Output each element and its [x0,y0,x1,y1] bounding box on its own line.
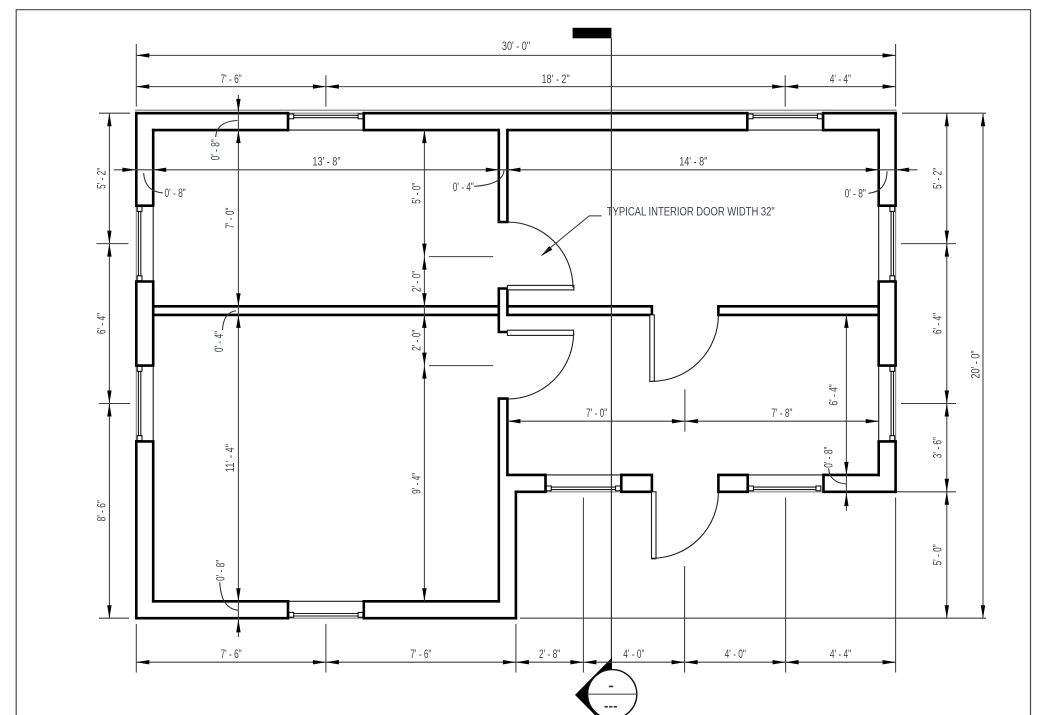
svg-text:20' - 0": 20' - 0" [971,350,983,378]
wall B and C right face segments [506,129,509,476]
svg-text:4' - 4": 4' - 4" [830,649,851,661]
svg-text:0' - 8": 0' - 8" [165,188,186,200]
dimension line 7'-6" 18'-2" 4'-4" [136,86,895,88]
svg-text:6' - 4": 6' - 4" [933,313,945,334]
leader arc right wall 0'-8" [869,171,888,193]
arrows top row2 [136,84,895,88]
leader arc left wall 0'-8" [144,173,163,193]
arrows right 20'-0" [981,113,985,618]
dimension line right 20'-0" [982,113,984,618]
dimension line left chain 5'-2" 6'-4" 8'-6" [108,113,110,618]
arrows interior stack x=238 [236,99,240,143]
dimension line 13'-8" 14'-8" [114,169,918,171]
svg-text:7' - 6": 7' - 6" [221,649,242,661]
door C jamb caps [498,332,509,399]
dimension line interior stack x=238 [237,95,239,637]
roof overhang thin line above top wall [135,109,897,111]
svg-text:0' - 4": 0' - 4" [214,331,226,352]
svg-text:2' - 8": 2' - 8" [539,649,560,661]
svg-text:7' - 0": 7' - 0" [586,408,607,420]
arrows 7'-0" 7'-8" row [507,419,878,423]
section head chord line [588,693,637,695]
door B swing arc [507,222,573,288]
dimension line 7'-0" 7'-8" row [507,420,878,422]
door A swing arc [652,315,718,381]
wall B and C left face upper segments [497,129,500,332]
wall A horizontal top line [154,305,879,308]
svg-text:11' - 4": 11' - 4" [225,444,237,472]
svg-text:14' - 8": 14' - 8" [679,156,707,168]
wall A horizontal bottom line [154,314,879,317]
svg-text:2' - 0": 2' - 0" [411,271,423,292]
dimension line bottom row [136,661,895,663]
door B leaf (top interior door, opens right) [507,285,574,290]
dimension extension tick door center [684,389,686,431]
wall right exterior inner line [877,129,880,476]
leader arc wall A 0'-4" [223,311,237,330]
door C swing arc [507,333,573,399]
svg-text:8' - 6": 8' - 6" [96,500,108,521]
dimension line 30'-0" [136,54,895,56]
dimension extension ticks left chain [97,113,131,618]
svg-text:6' - 4": 6' - 4" [829,384,841,405]
svg-text:5' - 0": 5' - 0" [411,183,423,204]
svg-text:0' - 4": 0' - 4" [453,182,474,194]
arrows left chain [107,113,111,618]
svg-text:4' - 4": 4' - 4" [830,74,851,86]
door EXT swing arc [652,492,719,559]
svg-text:0' - 8": 0' - 8" [824,447,836,468]
wall left exterior inner line [152,129,155,603]
window W3 left wall upper [135,206,155,282]
svg-text:6' - 4": 6' - 4" [96,313,108,334]
window W1 top wall left [288,112,364,131]
section marker black bar at top [573,28,612,39]
door B jamb caps [498,222,509,289]
svg-text:4' - 0": 4' - 0" [623,649,644,661]
dimension extension ticks bottom row [136,498,895,673]
svg-text:TYPICAL INTERIOR DOOR WIDTH 32: TYPICAL INTERIOR DOOR WIDTH 32" [607,207,775,219]
dimension extension ticks stack x=424 [429,257,493,366]
section cut line vertical [610,38,612,669]
dimension line interior stack x=424 [423,130,425,601]
svg-text:2' - 0": 2' - 0" [411,330,423,351]
leader arc top wall 0'-8" [216,121,238,138]
dimension extension ticks right chains [520,113,986,618]
svg-text:5' - 2": 5' - 2" [933,168,945,189]
dimension line right chain 5'-2" 6'-4" 3'-6" 5'-0" [946,113,948,618]
section head sheet text dashes [605,706,608,708]
svg-text:3' - 6": 3' - 6" [933,437,945,458]
wall top exterior inner line [152,129,880,132]
svg-text:9' - 4": 9' - 4" [411,473,423,494]
leader arc bottom-right wall 0'-8" [829,468,846,484]
window W7 bottom-left wall [288,600,364,620]
window W8 bottom-right wall left [546,474,622,494]
dimension line 6'-4" right interior [845,315,847,511]
leader line of note text [545,216,602,253]
window W4 left wall lower [135,366,155,442]
svg-text:18' - 2": 18' - 2" [542,74,570,86]
window W5 right wall upper [877,206,897,282]
svg-text:0' - 8": 0' - 8" [210,139,222,160]
arrows interior stack x=424 [422,130,426,601]
window W2 top wall right [747,112,823,131]
wall step vertical outer line [515,491,518,620]
svg-text:13' - 8": 13' - 8" [312,156,340,168]
wall step vertical inner line joined with interior wall C left face [497,399,500,603]
door A leaf (hall door in wall A) [650,315,655,382]
svg-text:5' - 0": 5' - 0" [933,544,945,565]
wall bottom-right exterior outer line [515,490,897,493]
door EXT jamb caps [652,474,719,494]
wall bottom-left exterior outer line [135,617,517,620]
svg-text:0' - 8": 0' - 8" [845,188,866,200]
arrows 6'-4" right interior with flipped wall arrow [844,315,848,475]
arrows 13'-8" 14'-8" row with flipped wall arrows [122,168,166,172]
arrows 30'-0" [136,53,895,57]
dimension extension lines top [136,44,895,107]
svg-text:30' - 0": 30' - 0" [502,41,530,53]
window W9 bottom-right wall right [748,474,824,494]
wall bottom-right exterior inner line [507,474,880,477]
section head reference text dash [609,686,613,688]
arrows right chain1 [945,113,949,618]
wall left exterior outer line [135,112,138,620]
wall bottom-left exterior inner line [152,600,500,603]
svg-text:7' - 0": 7' - 0" [225,208,237,229]
leader arc bottom wall 0'-8" [220,582,238,610]
arrows bottom row [136,660,895,664]
wall right exterior outer line [894,112,897,493]
svg-text:7' - 8": 7' - 8" [771,408,792,420]
door C leaf (lower-left interior door) [507,330,573,335]
svg-text:4' - 0": 4' - 0" [725,649,746,661]
svg-text:7' - 6": 7' - 6" [221,74,242,86]
svg-text:0' - 8": 0' - 8" [215,560,227,581]
section head circle at bottom [588,670,637,715]
arrow of note leader [541,246,553,256]
window W6 right wall lower [877,366,897,442]
door A jamb caps [652,305,719,316]
section head filled triangle [575,658,612,715]
leader arc wall B 0'-4" [474,170,504,186]
svg-text:7' - 6": 7' - 6" [410,649,431,661]
door EXT leaf (exterior door bottom-right wall) [652,492,657,559]
svg-text:5' - 2": 5' - 2" [96,168,108,189]
wall top exterior outer line [135,112,897,115]
